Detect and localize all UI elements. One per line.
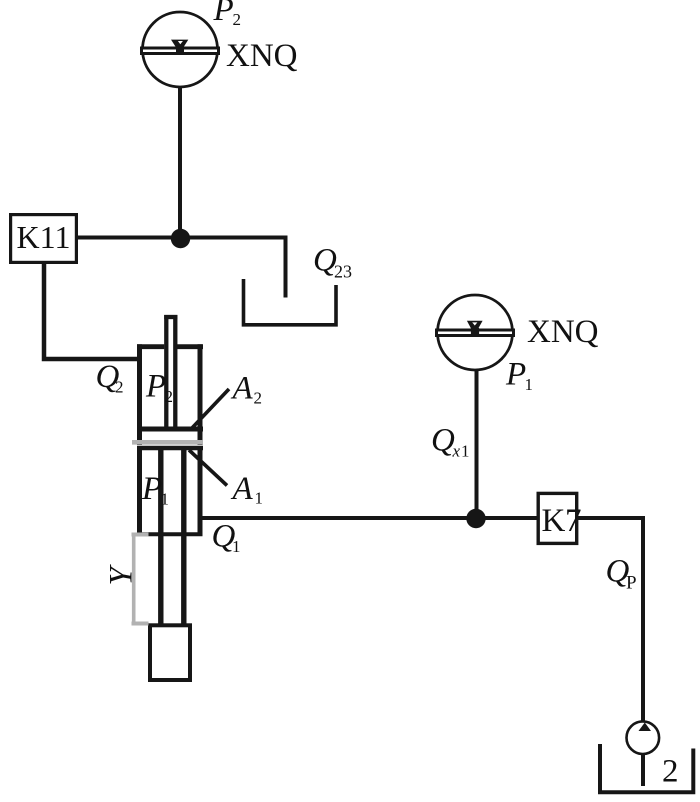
svg-text:7: 7 xyxy=(565,503,582,539)
svg-text:K11: K11 xyxy=(17,219,71,255)
svg-text:P: P xyxy=(141,471,162,507)
svg-text:XNQ: XNQ xyxy=(527,314,599,350)
svg-text:2: 2 xyxy=(115,378,124,397)
svg-text:1: 1 xyxy=(525,375,534,394)
svg-text:2: 2 xyxy=(165,387,174,406)
svg-text:23: 23 xyxy=(334,262,352,282)
svg-text:P: P xyxy=(505,357,526,393)
svg-text:1: 1 xyxy=(255,489,264,508)
svg-text:P: P xyxy=(145,369,166,405)
svg-text:A: A xyxy=(231,371,254,407)
svg-text:2: 2 xyxy=(254,389,263,408)
svg-text:XNQ: XNQ xyxy=(226,38,298,74)
svg-text:x: x xyxy=(452,442,461,461)
svg-text:2: 2 xyxy=(233,10,242,29)
svg-text:P: P xyxy=(213,0,234,28)
svg-text:2: 2 xyxy=(662,754,679,790)
svg-text:1: 1 xyxy=(232,537,241,556)
svg-text:P: P xyxy=(626,573,637,594)
svg-text:1: 1 xyxy=(161,490,170,509)
svg-text:Q: Q xyxy=(431,423,455,459)
svg-text:A: A xyxy=(231,471,254,507)
svg-text:K: K xyxy=(542,503,566,539)
svg-text:1: 1 xyxy=(461,442,470,461)
